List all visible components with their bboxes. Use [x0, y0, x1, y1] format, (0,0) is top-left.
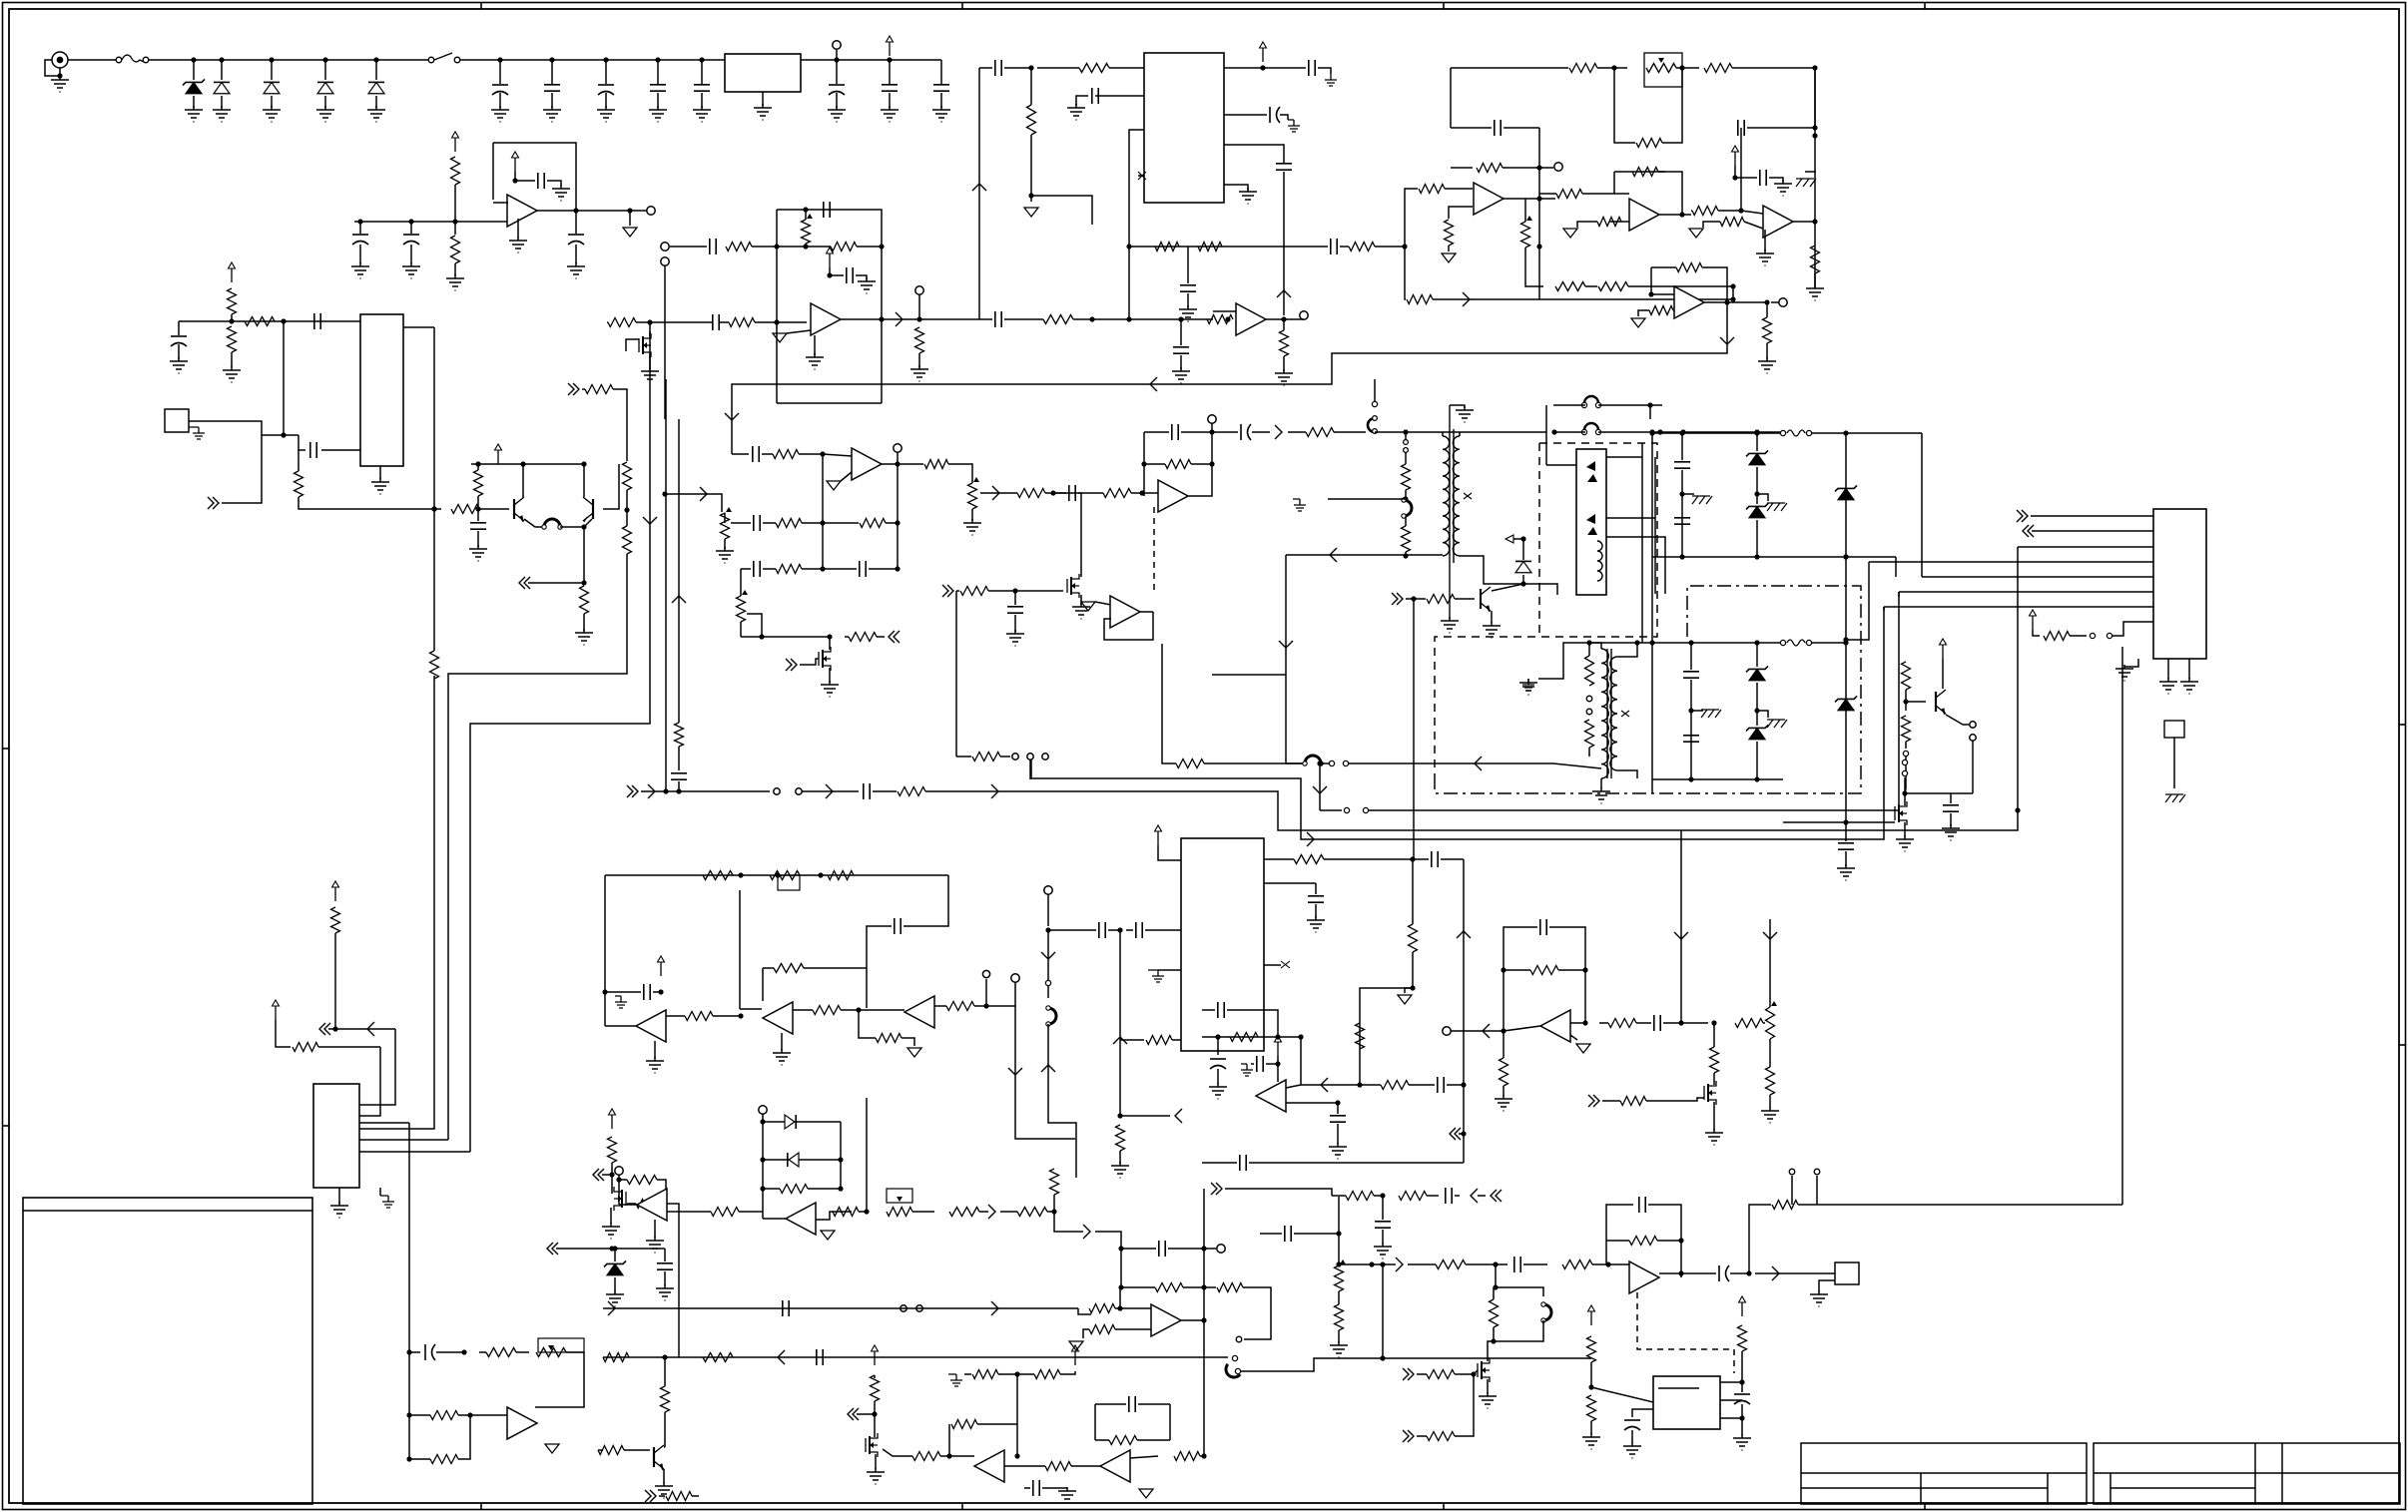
wire — [458, 1414, 507, 1416]
capacitor C5 — [694, 85, 710, 91]
power VCC Q13 — [872, 1345, 879, 1365]
resistor R73 — [774, 964, 804, 973]
node junction — [803, 244, 808, 249]
ground Q4 — [821, 681, 839, 697]
wire — [1095, 1403, 1126, 1405]
power VCC U14 — [332, 881, 339, 901]
wire q7 bottom — [1905, 792, 1973, 794]
transformer T2 primary — [1601, 649, 1608, 778]
wire fb top — [1144, 431, 1169, 433]
connector S3 — [1835, 1262, 1859, 1284]
node junction — [1679, 430, 1684, 435]
terminal lim2 — [759, 1106, 767, 1114]
wire cg stub — [1682, 493, 1694, 495]
terminal row1251 — [1217, 1245, 1225, 1253]
wire Q4 gate — [800, 659, 819, 665]
wire lim left — [762, 1114, 764, 1189]
resistor R21 — [831, 243, 857, 252]
ground S1 — [189, 427, 205, 439]
resistor R13 — [580, 586, 589, 614]
capacitor C50 — [1099, 922, 1105, 938]
node junction — [895, 520, 900, 525]
wire — [845, 636, 849, 638]
wire col 1645 — [1641, 443, 1643, 643]
transistor Q5 — [1067, 574, 1079, 598]
resistor R8 — [228, 326, 237, 352]
wire — [1412, 859, 1414, 924]
wire fb up — [1606, 1205, 1633, 1241]
potentiometer RV9 — [1335, 1260, 1347, 1291]
ground C8 — [932, 106, 950, 122]
op-amp U10 — [1674, 286, 1704, 318]
op-amp U12 — [1158, 480, 1188, 512]
resistor R122 — [912, 1452, 940, 1461]
wire C15 to U3 — [321, 449, 360, 451]
resistor R41 — [1692, 207, 1718, 216]
wire to TP1 — [836, 50, 838, 60]
wire — [1202, 1009, 1215, 1011]
capacitor C36 — [1172, 424, 1178, 440]
wire jmp l — [1791, 1176, 1793, 1205]
wire column 1466 — [1463, 859, 1465, 1163]
node x-mark u18 — [1281, 961, 1290, 968]
node junction — [1335, 1100, 1340, 1105]
pot box RV2 — [1644, 53, 1682, 87]
wire U22 out3 — [1720, 1417, 1742, 1419]
capacitor C64 — [1285, 1226, 1291, 1242]
wire T1 top — [1442, 432, 1444, 436]
wire bus1311 — [603, 1307, 1078, 1309]
wire U15 out — [605, 1025, 636, 1027]
node open contact — [1404, 440, 1409, 445]
power VCC U14b — [273, 1000, 280, 1020]
wire RV5 wiper — [747, 614, 762, 637]
wire arrow 1050b — [1041, 1065, 1055, 1072]
node junction — [916, 316, 921, 321]
wire to C21 — [979, 67, 992, 69]
wire C75 r — [1042, 1487, 1067, 1489]
wire R6b gnd — [454, 263, 456, 275]
wire arrow 1684 — [1674, 932, 1688, 939]
wire vert410 ext — [408, 1212, 410, 1459]
wire A down to U14 — [359, 676, 434, 1129]
wire to U10 node — [1628, 285, 1733, 287]
net tag j2b — [2023, 525, 2034, 537]
resistor R47 — [773, 450, 799, 459]
wire — [1588, 748, 1590, 756]
wire fb up — [1504, 927, 1537, 1031]
wire RV4 stub — [724, 513, 726, 523]
wire U4 gnd — [814, 335, 816, 355]
wire — [1681, 433, 1683, 460]
node junction — [1028, 65, 1033, 70]
potentiometer RV10 — [536, 1348, 566, 1357]
wire U5 in b vertical — [1129, 130, 1144, 319]
wire R79 gnd — [1119, 1151, 1121, 1164]
wire U11 in — [732, 453, 749, 455]
wire — [1445, 188, 1473, 190]
wire — [516, 1351, 529, 1353]
node junction — [1403, 429, 1408, 434]
wire — [1078, 492, 1103, 494]
wire — [614, 1277, 616, 1291]
capacitor C16 — [470, 523, 486, 529]
wire C45 gnd — [1845, 851, 1847, 866]
wire C12 gnd — [575, 245, 577, 263]
capacitor C80 — [1257, 1056, 1263, 1072]
resistor R126 — [1045, 1462, 1071, 1471]
node open contact — [1235, 1368, 1240, 1373]
wire — [1771, 301, 1779, 303]
terminal row — [982, 970, 989, 977]
wire — [1451, 127, 1492, 129]
wire fb cap left — [867, 926, 892, 1008]
wire to U6 stage — [1073, 318, 1213, 320]
wire U5 gnd stub — [1224, 185, 1248, 190]
node junction — [1117, 927, 1122, 932]
wire RV4 feed — [665, 494, 722, 512]
wire T2 in — [1553, 763, 1601, 768]
jumper hook — [1368, 418, 1375, 432]
wire 1385 down — [1382, 1263, 1384, 1358]
wire pin7 stub — [1883, 607, 1885, 611]
net tag in — [208, 497, 219, 509]
wire blk o2 — [1606, 517, 1655, 519]
wire — [841, 1009, 875, 1011]
capacitor C32 — [754, 515, 760, 531]
wire arrow 1267 — [1396, 1258, 1403, 1271]
wire D4 to ground — [324, 96, 326, 108]
capacitor C74 — [817, 1349, 823, 1365]
wire — [664, 1249, 666, 1261]
capacitor C79 — [895, 918, 901, 934]
net tag b — [568, 383, 579, 395]
wire Q4 source — [829, 668, 831, 683]
wire — [1322, 762, 1329, 764]
wire U3 to vertical A — [403, 326, 434, 328]
node junction — [191, 57, 196, 62]
node junction — [1260, 65, 1265, 70]
wire 680 low — [678, 747, 680, 770]
wire — [1138, 1403, 1170, 1405]
node junction — [759, 634, 764, 639]
wire R20 to fb — [752, 246, 777, 248]
node junction — [820, 566, 825, 571]
resistor R77 — [946, 1002, 974, 1011]
node junction — [609, 1246, 614, 1251]
node junction — [1730, 296, 1735, 301]
wire — [409, 1128, 411, 1130]
chassis ground bank2b — [1767, 720, 1787, 728]
wire q5 left down — [955, 591, 957, 756]
wire vcc drop — [1277, 1056, 1279, 1082]
IC U22 inner line — [1658, 1387, 1699, 1389]
wire drop2 — [1286, 675, 1305, 763]
capacitor C24 — [1270, 107, 1280, 123]
wire C77 gnd — [1187, 293, 1189, 307]
node open contact — [1373, 429, 1378, 434]
wire U10 plus — [1673, 309, 1674, 311]
wire arrow down2 — [725, 413, 739, 420]
wire row1165 — [1202, 1162, 1237, 1164]
signal ground row — [907, 1048, 921, 1057]
node junction — [624, 507, 629, 512]
terminal bus b — [916, 1305, 922, 1311]
wire rail segment 2 — [460, 59, 725, 61]
node open contact — [1343, 760, 1348, 765]
capacitor C19 — [847, 267, 853, 283]
node junction — [373, 57, 378, 62]
ground D13 — [606, 1290, 624, 1306]
node junction — [662, 491, 667, 496]
wire VCC rail Q pair — [471, 463, 584, 465]
resistor R98 — [1427, 1370, 1455, 1379]
ground C81 — [1329, 1143, 1347, 1159]
node junction — [1403, 553, 1408, 558]
signal ground mid — [1024, 208, 1038, 217]
node junction — [1812, 219, 1817, 224]
wire to Q9 — [1488, 1341, 1494, 1352]
wire — [741, 568, 751, 570]
net tag q6 — [1392, 593, 1403, 605]
signal ground U24 — [821, 1231, 835, 1240]
wire 1341 vert — [1338, 1197, 1340, 1264]
arrow small left — [1505, 535, 1513, 543]
ground C47b — [615, 996, 627, 1008]
node junction — [1410, 856, 1415, 861]
wire arrow bus1311b — [991, 1301, 998, 1315]
loop L6 — [1223, 1364, 1240, 1380]
wire u18 gnd stub — [1158, 969, 1181, 971]
wire to D5 — [375, 60, 377, 80]
wire 1017 step — [1015, 1080, 1075, 1139]
node junction — [1520, 581, 1525, 586]
node junction — [1754, 429, 1759, 434]
wire fb left — [1605, 1241, 1607, 1264]
resistor R26 — [1207, 315, 1233, 324]
node junction — [1843, 554, 1848, 559]
node junction — [1201, 1317, 1206, 1322]
node junction — [357, 219, 362, 224]
capacitor C67 — [1719, 1265, 1729, 1281]
node junction — [627, 208, 632, 213]
wire — [1115, 1328, 1151, 1330]
wire U9 gnd — [1764, 230, 1766, 252]
resistor R118 — [703, 1353, 733, 1362]
wire upper bank rail — [1652, 432, 1783, 434]
node junction — [1648, 291, 1653, 296]
node junction — [1764, 299, 1769, 304]
resistor R35 — [1445, 220, 1454, 246]
wire R22 gnd — [918, 353, 920, 367]
wire vert868 — [866, 1098, 868, 1212]
node junction — [1402, 244, 1407, 249]
capacitor C38 — [671, 773, 687, 779]
node junction — [461, 1349, 466, 1354]
node junction — [1117, 1113, 1122, 1118]
ground Q10 — [1705, 1129, 1723, 1145]
loop L5 — [1541, 1302, 1551, 1322]
wire U4 fb left — [776, 210, 778, 322]
wire minus lnk — [1286, 1085, 1301, 1088]
wire — [1045, 492, 1066, 494]
resistor R70 — [293, 1043, 318, 1052]
wire R12 bottom — [477, 496, 479, 509]
wire RV10 to U23 — [535, 1352, 584, 1407]
ground RV4 — [716, 547, 734, 563]
resistor R20 — [726, 243, 752, 252]
wire R134 link — [657, 1180, 666, 1191]
resistor R64 — [1585, 656, 1594, 686]
wire RV6 gnd — [971, 509, 973, 521]
wire R24 top — [1030, 68, 1032, 105]
loop L2 — [1402, 498, 1412, 518]
wire U8 plus — [1609, 221, 1629, 223]
wire col 1658 — [1654, 457, 1656, 594]
node junction — [1649, 429, 1654, 434]
wire — [1638, 310, 1649, 316]
wire to C37 — [1014, 591, 1016, 605]
ground Q3 — [641, 367, 659, 383]
node junction — [322, 57, 327, 62]
net tag q10 — [1588, 1095, 1599, 1107]
wire — [1338, 1330, 1340, 1342]
capacitor C71 — [425, 1344, 435, 1360]
wire to C15 — [299, 435, 305, 450]
wire bus1360 — [603, 1356, 1228, 1358]
wire tag to S1 run — [222, 435, 262, 503]
resistor R129 — [666, 1492, 692, 1501]
resistor R79 — [1116, 1125, 1125, 1151]
capacitor C14 — [314, 313, 320, 329]
node junction — [1536, 165, 1541, 170]
ground C23 — [1325, 74, 1337, 86]
node junction — [1754, 554, 1759, 559]
resistor R71 — [703, 871, 733, 880]
node junction — [1178, 316, 1183, 321]
wire U13 out — [1140, 611, 1153, 613]
capacitor C35 — [1069, 485, 1075, 501]
node junction — [281, 432, 286, 437]
node junction — [1732, 175, 1737, 180]
wire — [875, 1009, 904, 1011]
wire — [1459, 1133, 1464, 1135]
node junction — [1298, 1034, 1303, 1039]
wire — [1680, 1241, 1682, 1277]
wire U8 fb — [1614, 171, 1665, 173]
transformer T1 primary — [1443, 436, 1450, 556]
wire fb rail 877 — [605, 874, 948, 876]
resistor R128 — [1174, 1452, 1200, 1461]
ground J1 — [51, 76, 69, 92]
wire fb box bottom — [777, 402, 882, 404]
node junction — [1014, 1371, 1019, 1376]
wire U20 out — [1570, 1022, 1585, 1024]
power VCC U22b — [1739, 1296, 1746, 1316]
wire — [802, 568, 857, 570]
wire — [276, 1020, 291, 1047]
capacitor C68 — [1624, 1420, 1640, 1430]
wire Q7 base — [1906, 701, 1926, 703]
connector J2 — [2153, 509, 2206, 659]
node junction — [1501, 967, 1505, 972]
power VCC U22 — [1588, 1305, 1595, 1325]
wire — [1405, 490, 1407, 500]
node junction — [1711, 1020, 1716, 1025]
pot arrow RV11 — [897, 1197, 903, 1202]
net tag fb — [519, 577, 530, 589]
wire — [1756, 742, 1758, 779]
node junction — [1118, 1246, 1123, 1251]
zener D11 — [1835, 485, 1857, 499]
wire — [1763, 1022, 1765, 1024]
node junction — [602, 989, 607, 994]
ground R43 — [1806, 284, 1824, 300]
wire fb left ext — [776, 322, 778, 403]
resistor R92 — [1399, 1192, 1427, 1201]
node junction — [1812, 125, 1817, 130]
wire fb right — [1648, 1205, 1681, 1241]
wire long to U10 — [1433, 298, 1733, 300]
wire vert 410 down — [408, 1123, 410, 1212]
wire Q2 down — [583, 527, 585, 583]
resistor R81 — [1409, 924, 1418, 952]
wire node to right — [1031, 196, 1092, 225]
wire arrow stub — [1513, 538, 1523, 540]
wire — [1691, 710, 1703, 712]
transformer T1 secondary — [1453, 436, 1460, 556]
wire — [1406, 598, 1426, 600]
wire — [1523, 1263, 1547, 1265]
wire right bus x1655 — [1651, 432, 1653, 793]
terminal u18 — [1044, 886, 1052, 894]
wire bus433 a — [1375, 431, 1546, 433]
wire Q2 emitter — [584, 519, 592, 527]
wire to C10 — [359, 222, 361, 234]
node junction — [1647, 402, 1652, 407]
wire U2 feedback left — [492, 143, 494, 200]
wire C46 gnd — [1950, 813, 1952, 826]
node junction — [1605, 1261, 1610, 1266]
wire — [1417, 1373, 1427, 1375]
wire — [1120, 1039, 1144, 1041]
node junction — [699, 57, 704, 62]
wire — [956, 756, 971, 757]
power VCC U19 — [1275, 1036, 1282, 1056]
resistor R12 — [474, 470, 483, 496]
wire up link — [458, 1415, 470, 1459]
chassis ground right — [1796, 179, 1816, 187]
wire U7 plus — [1449, 207, 1473, 219]
wire bus780 — [1031, 607, 1884, 839]
ground C53 — [1307, 916, 1325, 932]
zener D8 — [1746, 503, 1768, 517]
resistor R72 — [828, 871, 854, 880]
node open contact — [1045, 980, 1050, 985]
ground C9 — [552, 185, 570, 201]
wire U14 gnd stub — [379, 1188, 381, 1196]
node junction — [406, 1456, 411, 1461]
capacitor C33 — [754, 561, 760, 577]
wire C5 to ground — [701, 93, 703, 108]
ground R46 — [1758, 357, 1776, 373]
wire — [762, 453, 773, 455]
node open contact — [1586, 709, 1592, 715]
ground R27 — [1275, 369, 1293, 385]
wire — [627, 1203, 636, 1205]
node junction — [1902, 790, 1907, 795]
node junction — [864, 1209, 869, 1214]
